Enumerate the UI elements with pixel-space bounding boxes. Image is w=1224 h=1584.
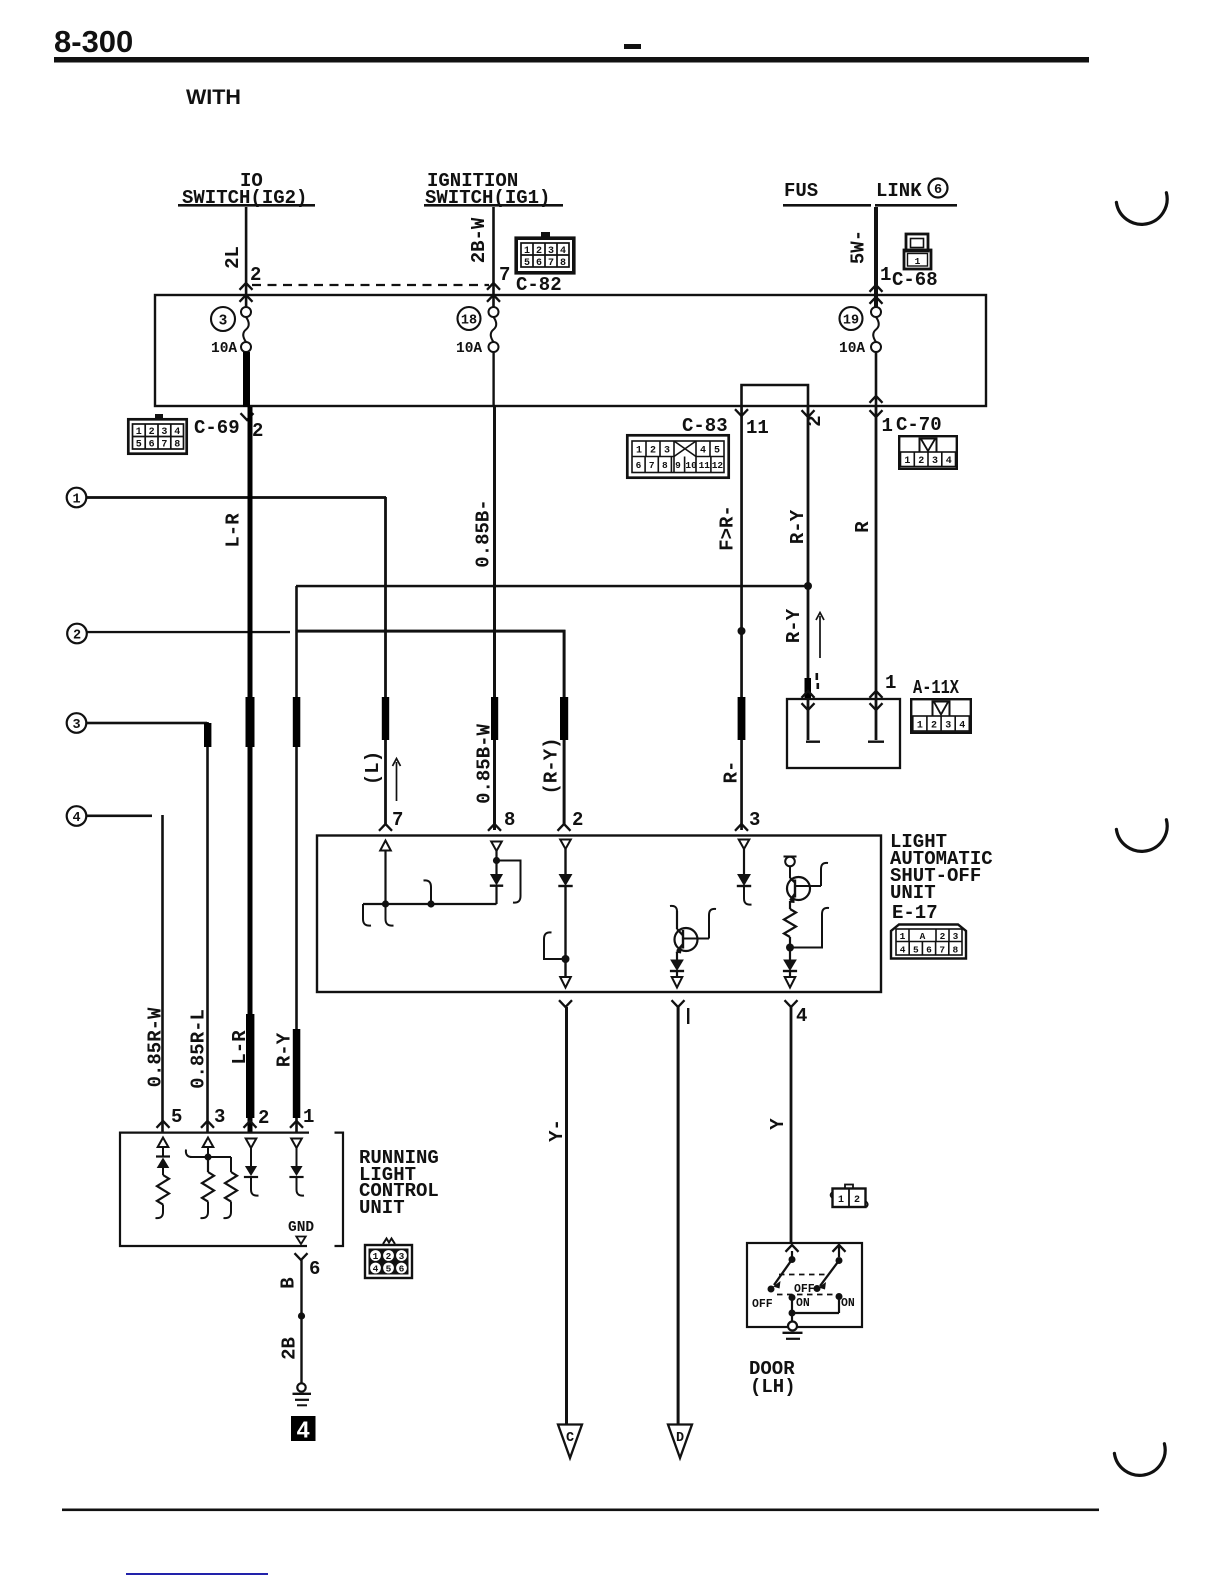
svg-text:4: 4 [373, 1264, 379, 1275]
svg-text:4: 4 [174, 427, 180, 438]
E-17 pin3 input triangle [739, 840, 750, 850]
svg-text:1: 1 [136, 427, 142, 438]
node 1 circle [67, 488, 87, 508]
svg-text:4: 4 [946, 456, 952, 467]
A-11X chevrons and pins [802, 691, 815, 698]
svg-text:3: 3 [161, 427, 167, 438]
bus with hook [186, 1150, 192, 1158]
fuse 18 output wire [492, 352, 494, 407]
wire 2L from IO switch [245, 207, 248, 307]
svg-text:WITH: WITH [186, 85, 241, 109]
svg-text:5: 5 [524, 258, 530, 269]
transistor Q2 [787, 863, 828, 901]
svg-text:1: 1 [373, 1251, 379, 1262]
E-17 exit chevrons [559, 1000, 572, 1007]
diode D3 on pin3 line [738, 875, 750, 886]
svg-text:4: 4 [72, 811, 80, 826]
svg-text:2: 2 [149, 427, 155, 438]
unit name [359, 1147, 439, 1219]
svg-text:7: 7 [499, 264, 510, 286]
svg-text:2B: 2B [279, 1337, 301, 1360]
svg-text:R-Y: R-Y [274, 1032, 296, 1067]
svg-text:7: 7 [392, 809, 403, 831]
Y- wire to arrow C [565, 1007, 568, 1424]
svg-text:11: 11 [746, 417, 769, 439]
svg-text:4: 4 [297, 1417, 310, 1443]
svg-text:19: 19 [843, 314, 859, 329]
chevron C-70 pin 1 crossing [870, 396, 883, 403]
svg-text:2: 2 [73, 629, 81, 644]
connector E-17 icon [891, 925, 966, 959]
splice dot [298, 1312, 305, 1319]
resistor R3 [202, 1160, 214, 1202]
node 2 wire [87, 631, 290, 633]
svg-text:4: 4 [959, 721, 965, 732]
svg-text:1: 1 [838, 1195, 844, 1206]
GND exit chevron + pin 6 [295, 1253, 308, 1260]
switch blade left [774, 1260, 792, 1286]
unit name text [890, 831, 993, 924]
svg-text:0.85R-W: 0.85R-W [145, 1007, 167, 1087]
pin 1 tick label [687, 1008, 689, 1024]
R wire [875, 407, 878, 699]
contacts to ground [789, 1294, 796, 1301]
svg-text:2: 2 [536, 246, 542, 257]
svg-text:C-68: C-68 [892, 269, 938, 291]
svg-text:10A: 10A [839, 341, 865, 357]
svg-text:L-R: L-R [223, 513, 245, 548]
svg-text:6: 6 [926, 945, 932, 956]
svg-text:3: 3 [953, 931, 959, 942]
svg-text:5: 5 [386, 1264, 392, 1275]
svg-text:A-11X: A-11X [913, 677, 959, 699]
punch hole crescent bottom [1114, 1444, 1165, 1476]
svg-text:1: 1 [72, 493, 80, 508]
B ground wire [300, 1260, 302, 1383]
E-17 pin7 input triangle [380, 841, 391, 851]
svg-text:1: 1 [880, 264, 891, 286]
svg-text:7: 7 [649, 460, 655, 471]
IGNITION SWITCH(IG1) header [424, 170, 563, 209]
Y wire to door switch [790, 1007, 793, 1243]
chevron C-69 pin 2 exit [241, 413, 254, 420]
svg-text:3: 3 [945, 721, 951, 732]
svg-text:4: 4 [700, 446, 706, 457]
fuse 3 heavy output wire [243, 352, 250, 407]
svg-text:6: 6 [934, 183, 942, 198]
diode D5 under Q2 [784, 960, 796, 970]
svg-text:R-Y: R-Y [787, 509, 809, 544]
svg-text:1: 1 [636, 446, 642, 457]
svg-text:3: 3 [548, 246, 554, 257]
svg-text:Y-: Y- [546, 1119, 568, 1142]
svg-text:5: 5 [913, 945, 919, 956]
0.85B- wire [493, 407, 496, 830]
node 3 wire [86, 722, 207, 725]
terminal hook left [363, 904, 371, 926]
pin5 input triangle [158, 1138, 169, 1148]
svg-text:6: 6 [636, 460, 642, 471]
svg-text:2: 2 [918, 456, 924, 467]
svg-text:ON: ON [796, 1297, 810, 1310]
svg-text:8: 8 [560, 258, 566, 269]
svg-text:5: 5 [714, 446, 720, 457]
wire 5W- fusible link [874, 207, 878, 307]
svg-text:FUS: FUS [784, 180, 818, 202]
svg-text:1: 1 [917, 721, 923, 732]
E-17 entry chevrons and pin numbers [379, 824, 392, 831]
off-page arrow D [668, 1425, 692, 1459]
terminal hook under pin7 [386, 904, 394, 926]
svg-text:11: 11 [699, 460, 711, 471]
transistor Q1 [670, 906, 716, 951]
diode D4 under Q1 [671, 960, 683, 970]
svg-text:2: 2 [258, 1107, 269, 1129]
svg-text:C-83: C-83 [682, 415, 728, 437]
R-Y wire from fuse box [807, 407, 810, 699]
svg-text:4: 4 [796, 1005, 807, 1027]
svg-text:1: 1 [915, 256, 921, 267]
dashed couplers [779, 1274, 827, 1276]
connector C-70 icon [899, 436, 957, 469]
FUS LINK 6 header [783, 179, 957, 207]
node 2 circle [67, 624, 87, 644]
svg-text:5: 5 [136, 440, 142, 451]
svg-text:10A: 10A [211, 341, 237, 357]
svg-text:4: 4 [560, 246, 566, 257]
pin2 input triangle (down) [246, 1139, 257, 1149]
svg-text:8-300: 8-300 [54, 24, 133, 59]
switch blade right [820, 1261, 839, 1287]
svg-text:7: 7 [548, 258, 554, 269]
fuse block box [155, 295, 986, 406]
fuse 19 output wire [875, 352, 878, 407]
footer link line [126, 1573, 268, 1575]
svg-text:R-Y: R-Y [783, 608, 805, 643]
svg-text:Y: Y [767, 1118, 789, 1130]
chevron R-Y exit + rotated pin 2 [802, 410, 815, 417]
resistor R2 [157, 1175, 169, 1205]
svg-text:C: C [566, 1431, 574, 1446]
door switch poles [786, 1245, 799, 1252]
svg-text:5W-: 5W- [848, 230, 870, 264]
pin8 bypass bracket [497, 861, 521, 903]
svg-text:(L): (L) [362, 751, 384, 785]
svg-text:2: 2 [650, 446, 656, 457]
svg-text:E-17: E-17 [892, 902, 938, 924]
svg-text:1: 1 [882, 415, 893, 437]
connector C-82 icon [516, 232, 574, 273]
svg-text:9: 9 [675, 460, 681, 471]
connector C-83 icon [627, 435, 728, 477]
footer rule [62, 1509, 1099, 1512]
svg-text:8: 8 [662, 460, 668, 471]
svg-text:6: 6 [536, 258, 542, 269]
svg-text:2: 2 [252, 420, 263, 442]
svg-text:2L: 2L [222, 246, 244, 269]
svg-text:7: 7 [161, 440, 167, 451]
diode D7 [245, 1166, 257, 1176]
svg-text:3: 3 [399, 1251, 405, 1262]
svg-text:1: 1 [303, 1106, 314, 1128]
svg-text:1: 1 [904, 456, 910, 467]
internal bus line [363, 903, 497, 905]
svg-text:8: 8 [953, 945, 959, 956]
chevron pair on 5W- wire [870, 285, 883, 292]
svg-text:C-70: C-70 [896, 414, 942, 436]
wire 2B-W from ignition switch [492, 207, 495, 307]
connector C-68 icon [904, 234, 931, 269]
svg-text:B: B [278, 1277, 300, 1288]
svg-text:R-: R- [721, 761, 743, 784]
resistor R4 [225, 1172, 237, 1202]
svg-text:3: 3 [72, 718, 80, 733]
svg-text:2: 2 [940, 931, 946, 942]
svg-text:0.85B-: 0.85B- [473, 499, 495, 567]
IO SWITCH(IG2) header [178, 170, 315, 209]
junction horizontal to R-Y [296, 585, 809, 588]
svg-text:F>R-: F>R- [717, 505, 739, 551]
ground ref black box 4 [291, 1416, 316, 1441]
svg-text:8: 8 [504, 809, 515, 831]
svg-text:A: A [920, 931, 926, 942]
door switch connector icon [831, 1185, 868, 1208]
svg-text:R: R [852, 521, 874, 533]
svg-text:2: 2 [931, 721, 937, 732]
node 4 circle [67, 806, 87, 826]
A-11X unit box [787, 699, 900, 768]
E-17 pin2 input triangle [560, 840, 571, 850]
svg-text:C-82: C-82 [516, 274, 562, 296]
ground terminal [297, 1383, 305, 1391]
svg-text:(LH): (LH) [750, 1376, 796, 1398]
svg-text:2B-W: 2B-W [468, 217, 490, 263]
door switch box [747, 1243, 862, 1327]
light automatic shut-off unit box E-17 [317, 836, 881, 993]
Q2 branch hook [790, 908, 829, 948]
svg-text:12: 12 [712, 460, 724, 471]
svg-text:5: 5 [171, 1106, 182, 1128]
junction dot on F>R- wire [738, 627, 746, 635]
svg-text:2: 2 [386, 1251, 392, 1262]
off-page arrow C [558, 1425, 582, 1459]
diode D8 [290, 1166, 302, 1176]
svg-text:(R-Y): (R-Y) [541, 737, 563, 794]
svg-text:2: 2 [854, 1195, 860, 1206]
diode D6 (upward) [156, 1155, 170, 1157]
svg-text:1: 1 [524, 246, 530, 257]
running light connector icon [365, 1239, 412, 1279]
svg-text:3: 3 [749, 809, 760, 831]
svg-text:6: 6 [309, 1258, 320, 1280]
case ground [788, 1322, 797, 1331]
svg-text:2: 2 [250, 264, 261, 286]
node 4 wire [86, 815, 152, 818]
svg-text:3: 3 [664, 446, 670, 457]
chevron C-83 pin 11 exit [735, 409, 748, 416]
pin1 input triangle (down) [291, 1139, 302, 1149]
svg-text:1: 1 [885, 672, 896, 694]
node 1 wire to (L) [86, 496, 386, 499]
L-R trunk wire [248, 407, 253, 1132]
F>R- wire [740, 407, 743, 830]
running light control unit box [120, 1133, 343, 1246]
fuse 3 (10A) [211, 307, 251, 357]
svg-text:8: 8 [174, 440, 180, 451]
svg-text:D: D [676, 1431, 684, 1446]
svg-text:OFF: OFF [794, 1283, 815, 1296]
pin3 input triangle [203, 1138, 214, 1148]
E-17 pin8 input triangle [491, 842, 502, 852]
diode D1 at pin8 [491, 875, 502, 885]
svg-text:ON: ON [841, 1297, 855, 1310]
svg-text:1: 1 [900, 931, 906, 942]
pin2 branch hook [544, 932, 566, 959]
node 3 circle [67, 713, 87, 733]
svg-text:LINK: LINK [876, 180, 922, 202]
dashed link line between pin2 and pin7 [252, 284, 489, 286]
terminal stub at node [424, 880, 432, 904]
svg-text:0.85R-L: 0.85R-L [188, 1009, 210, 1089]
chevron pair on 2L wire at fuse box entry [240, 283, 253, 290]
internal bus jog above C-83/R-Y exits [742, 385, 809, 406]
sensor circle above Q2 [784, 857, 797, 879]
Q1 output triangle [672, 977, 683, 988]
punch hole crescent middle [1116, 820, 1167, 852]
Q2 output triangle [785, 977, 796, 988]
svg-text:UNIT: UNIT [359, 1197, 405, 1219]
svg-text:3: 3 [932, 456, 938, 467]
svg-text:18: 18 [461, 314, 477, 329]
A-11X connector icon [911, 699, 971, 733]
header dash [624, 44, 641, 49]
resistor R1 under Q2 [784, 909, 796, 937]
diode D2 on pin2 line [559, 875, 571, 886]
svg-text:GND: GND [288, 1220, 314, 1236]
wire to arrow D [677, 1007, 680, 1424]
chevron pair on 2B-W wire [487, 283, 500, 290]
punch hole crescent top [1116, 193, 1167, 225]
header rule [54, 57, 1089, 63]
svg-text:6: 6 [149, 440, 155, 451]
svg-text:C-69: C-69 [194, 417, 240, 439]
svg-text:OFF: OFF [752, 1298, 773, 1311]
svg-text:L-R: L-R [229, 1030, 251, 1065]
pin2 output triangle [560, 977, 571, 988]
harness emphasis overlays [246, 697, 255, 747]
fuse 19 (10A) [839, 307, 881, 357]
R-Y vertical to running light unit [295, 586, 298, 1132]
svg-text:10A: 10A [456, 341, 482, 357]
connector C-69 icon [128, 414, 186, 454]
svg-text:3: 3 [219, 314, 228, 330]
fuse 18 (10A) [456, 307, 499, 357]
svg-text:2: 2 [572, 809, 583, 831]
svg-text:6: 6 [399, 1264, 405, 1275]
svg-text:7: 7 [939, 945, 945, 956]
pin7 lead [384, 851, 386, 902]
svg-text:3: 3 [214, 1106, 225, 1128]
svg-text:10: 10 [685, 460, 697, 471]
svg-text:4: 4 [900, 945, 906, 956]
svg-text:UNIT: UNIT [890, 882, 936, 904]
running light unit pin chevrons + numbers [157, 1121, 170, 1128]
